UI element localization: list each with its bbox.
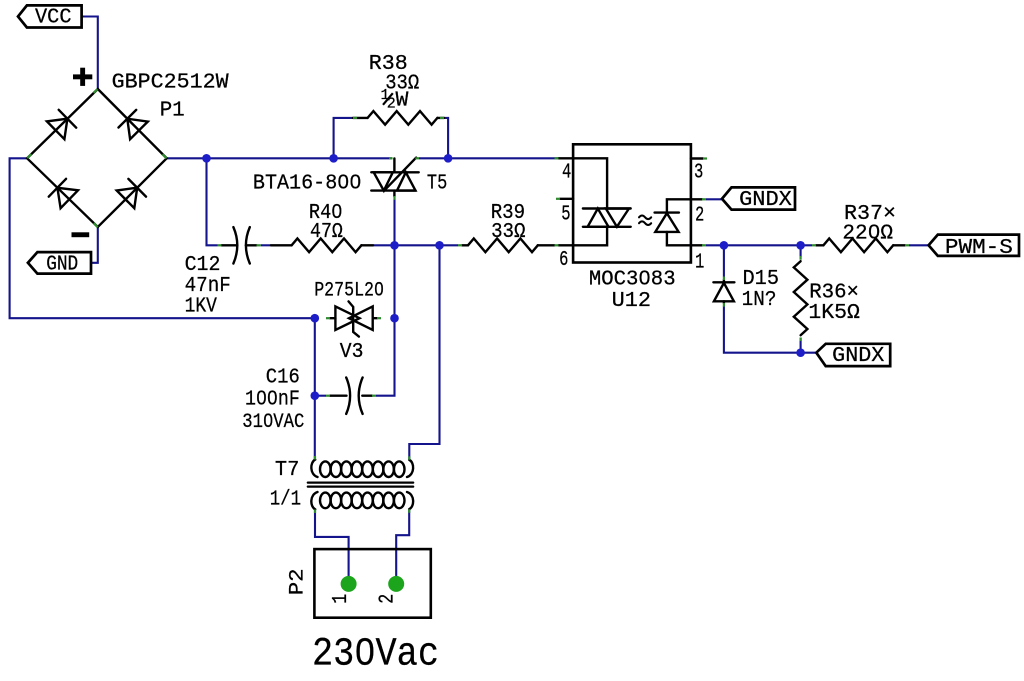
svg-text:2: 2 [695,204,704,228]
svg-text:VCC: VCC [35,7,72,30]
svg-text:310VAC: 310VAC [242,411,304,434]
svg-text:GNDX: GNDX [739,189,792,212]
svg-text:T7: T7 [275,458,300,482]
svg-text:6: 6 [559,248,568,272]
svg-text:U12: U12 [612,289,651,313]
svg-text:33Ω: 33Ω [491,220,525,244]
svg-text:2: 2 [376,594,400,604]
svg-text:2: 2 [387,96,396,113]
svg-text:P1: P1 [160,99,185,123]
svg-text:220Ω: 220Ω [842,221,893,245]
svg-text:1K5Ω: 1K5Ω [808,301,860,325]
svg-text:T5: T5 [427,171,447,195]
svg-text:PWM-S: PWM-S [945,237,1013,260]
svg-text:GNDX: GNDX [832,345,884,368]
svg-text:1: 1 [695,251,704,275]
svg-text:47Ω: 47Ω [310,220,343,244]
svg-text:P2: P2 [287,568,310,595]
svg-text:1N?: 1N? [742,288,777,312]
svg-text:GBPC2512W: GBPC2512W [112,71,229,95]
svg-text:4: 4 [562,161,571,185]
svg-text:C16: C16 [266,365,300,389]
svg-text:W: W [396,89,409,113]
svg-text:GND: GND [46,254,78,277]
svg-text:1: 1 [329,594,353,604]
svg-text:P275L20: P275L20 [314,280,384,303]
svg-text:3: 3 [694,161,703,185]
svg-text:1/1: 1/1 [270,488,301,512]
svg-text:230Vac: 230Vac [312,632,439,677]
svg-text:5: 5 [561,202,570,226]
svg-text:V3: V3 [340,340,364,364]
svg-text:1KV: 1KV [185,295,217,319]
